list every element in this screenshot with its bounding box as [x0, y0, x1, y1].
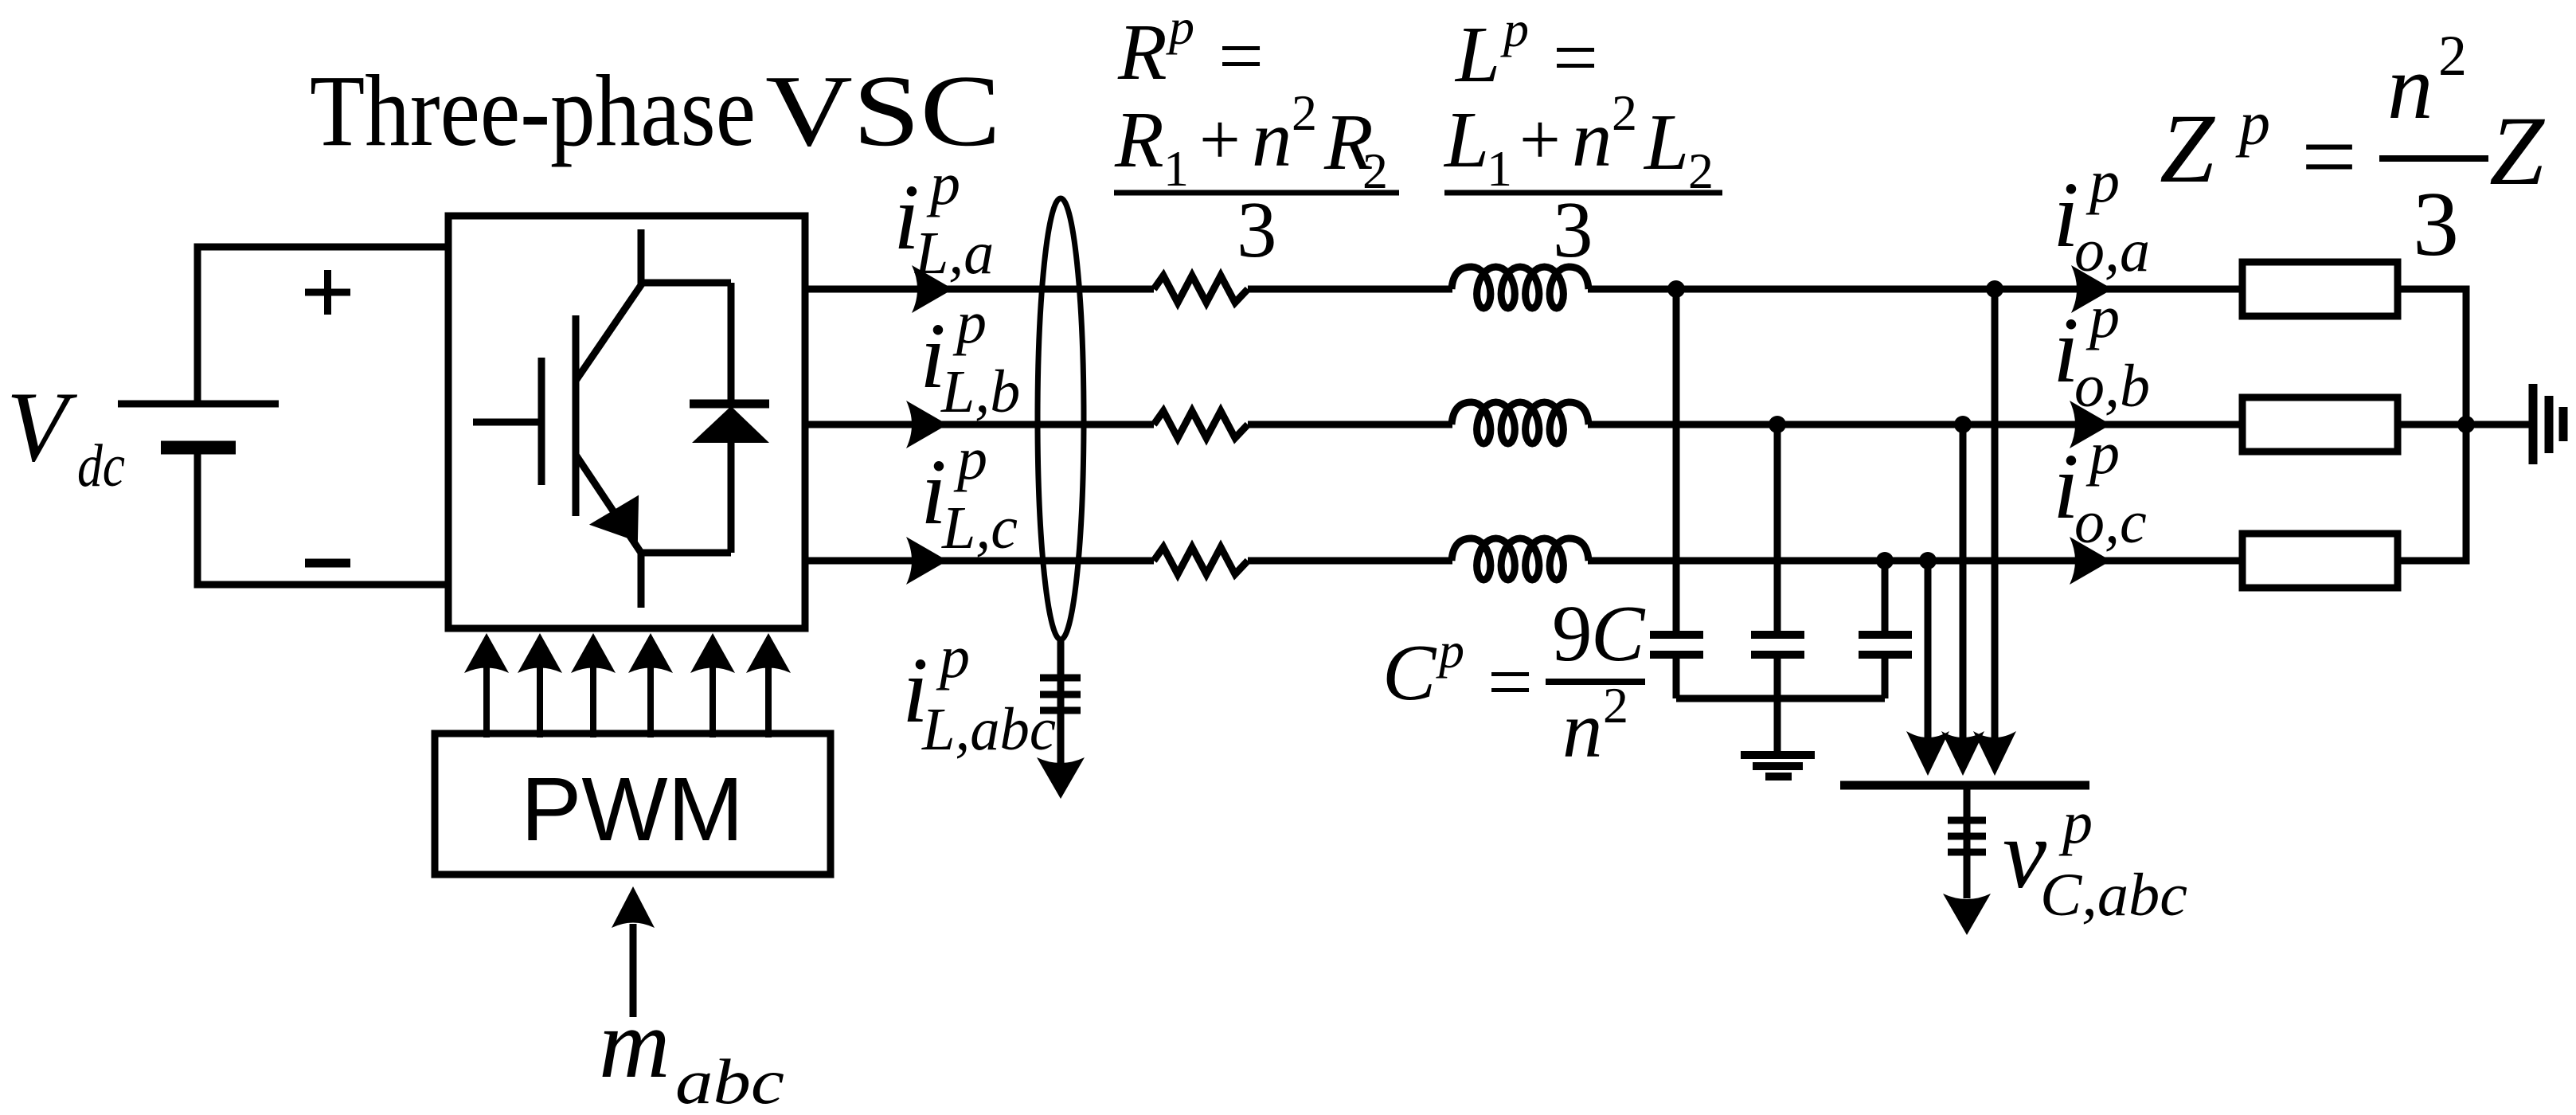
svg-text:2: 2 — [1603, 677, 1628, 734]
node dot a1 — [1667, 280, 1685, 298]
gate drive arrowheads — [464, 633, 791, 673]
capacitor C2 stem — [1774, 424, 1781, 753]
bundle arrow down — [1057, 640, 1065, 763]
svg-text:9: 9 — [1552, 589, 1593, 678]
svg-text:o,a: o,a — [2074, 217, 2150, 284]
IGBT emitter — [576, 455, 731, 608]
svg-text:L: L — [1454, 10, 1500, 99]
svg-text:C: C — [1591, 589, 1646, 678]
IGBT gate lead — [473, 419, 538, 426]
right bus — [2463, 286, 2470, 565]
i_L arrowheads — [906, 265, 953, 585]
svg-text:m: m — [599, 989, 670, 1098]
capacitor bottom bus — [1676, 695, 1885, 702]
wire b after load to ground — [2398, 421, 2530, 428]
IGBT gate bar — [538, 358, 545, 485]
svg-text:=: = — [1218, 11, 1264, 100]
wire a after load — [2398, 286, 2466, 293]
svg-text:abc: abc — [675, 1047, 784, 1111]
svg-text:C: C — [1382, 628, 1437, 717]
svg-text:o,c: o,c — [2074, 489, 2147, 556]
ground below C2 — [1741, 751, 1815, 759]
svg-text:3: 3 — [1237, 185, 1277, 274]
IGBT body bar — [573, 315, 580, 516]
phase line a — [805, 286, 2242, 293]
node dot b1 — [1769, 416, 1786, 433]
IGBT top connector to diode — [641, 280, 731, 287]
svg-text:=: = — [2301, 102, 2357, 211]
bundle ticks — [1040, 678, 1081, 710]
minus sign — [305, 559, 350, 568]
svg-text:=: = — [1553, 13, 1598, 102]
IGBT emitter arrow — [595, 499, 636, 538]
svg-text:Three-phase: Three-phase — [310, 54, 756, 167]
VSC box — [448, 216, 805, 628]
i_o arrowheads — [2070, 265, 2113, 585]
IGBT collector — [576, 229, 641, 381]
svg-text:p: p — [2085, 284, 2120, 350]
PWM box — [435, 734, 831, 874]
vC probe wire from line a — [1992, 289, 1999, 741]
battery plate long — [118, 401, 279, 408]
svg-text:R: R — [1114, 95, 1164, 184]
right ground — [2533, 384, 2563, 464]
svg-text:3: 3 — [2413, 174, 2459, 276]
svg-text:R: R — [1117, 7, 1167, 96]
svg-text:2: 2 — [1292, 84, 1317, 141]
node dot a2 — [1986, 280, 2003, 298]
svg-text:Z: Z — [2489, 96, 2545, 205]
inductor phase a — [1452, 267, 1589, 308]
svg-text:L,abc: L,abc — [921, 696, 1056, 763]
C3 plates — [1859, 631, 1912, 639]
vC probe wire from line b — [1960, 424, 1967, 741]
svg-text:Z: Z — [2160, 94, 2215, 203]
svg-text:1: 1 — [1163, 140, 1189, 197]
svg-text:C,abc: C,abc — [2040, 862, 2187, 929]
neutral node dot — [2457, 416, 2475, 433]
svg-text:=: = — [1487, 637, 1533, 726]
svg-text:V: V — [6, 372, 78, 483]
svg-text:PWM: PWM — [521, 759, 744, 859]
svg-text:p: p — [2235, 88, 2270, 158]
svg-text:p: p — [1500, 1, 1529, 57]
svg-text:p: p — [2085, 148, 2120, 215]
m_abc input arrow — [630, 924, 637, 1017]
vC arrowheads — [1906, 731, 2016, 776]
svg-text:2: 2 — [1612, 84, 1637, 141]
svg-text:p: p — [1166, 0, 1194, 55]
svg-text:L,b: L,b — [940, 358, 1020, 425]
load Z box b — [2242, 397, 2398, 452]
svg-text:+: + — [1199, 99, 1241, 180]
battery plate short — [161, 441, 236, 455]
node dot c1 — [1876, 552, 1894, 569]
svg-text:3: 3 — [1553, 185, 1593, 274]
vC probe wire from line c — [1925, 561, 1932, 741]
svg-text:p: p — [2085, 420, 2120, 487]
capacitor C1 stem — [1673, 289, 1680, 698]
vC down arrow — [1964, 785, 1971, 898]
C2 plates — [1751, 631, 1804, 639]
svg-text:+: + — [1519, 99, 1561, 180]
svg-text:VSC: VSC — [765, 54, 1001, 167]
svg-text:p: p — [1436, 622, 1464, 679]
gate drive arrows PWM to VSC — [487, 667, 768, 737]
phase line c — [805, 557, 2242, 565]
svg-text:p: p — [952, 289, 987, 356]
node dot b2 — [1954, 416, 1972, 433]
svg-text:n: n — [1562, 685, 1603, 774]
svg-text:p: p — [2058, 789, 2093, 856]
load Z box a — [2242, 262, 2398, 316]
wire c after load — [2398, 557, 2466, 565]
wire: battery top to VSC — [197, 247, 448, 404]
plus sign — [305, 270, 350, 315]
wire: battery bottom to VSC — [197, 451, 448, 585]
diode triangle — [692, 406, 769, 443]
svg-text:L: L — [1443, 95, 1489, 184]
svg-text:p: p — [953, 425, 987, 492]
svg-text:2: 2 — [2438, 24, 2467, 88]
svg-text:p: p — [936, 624, 970, 691]
diode cathode bar — [690, 400, 769, 409]
load Z box c — [2242, 534, 2398, 588]
svg-text:L,a: L,a — [914, 220, 994, 287]
bundle ellipse — [1038, 198, 1084, 640]
svg-text:n: n — [1252, 94, 1292, 183]
vC reference bar — [1840, 781, 2089, 790]
resistor phase a — [1154, 276, 1248, 303]
vC ticks — [1948, 820, 1986, 852]
svg-text:L: L — [1643, 97, 1689, 186]
svg-text:dc: dc — [77, 432, 125, 499]
svg-text:n: n — [2387, 37, 2433, 138]
resistor phase b — [1154, 411, 1248, 438]
capacitor C3 stem — [1882, 561, 1889, 698]
inductor phase b — [1452, 402, 1589, 444]
line gaps under resistors and inductors — [1154, 284, 1588, 565]
resistor phase c — [1154, 547, 1248, 574]
svg-text:1: 1 — [1487, 140, 1512, 197]
phase line b — [805, 421, 2242, 428]
inductor phase c — [1452, 538, 1589, 580]
node dot c2 — [1919, 552, 1937, 569]
svg-text:n: n — [1572, 94, 1612, 183]
svg-text:o,b: o,b — [2074, 353, 2150, 420]
diode branch — [728, 283, 735, 553]
C1 plates — [1650, 631, 1703, 639]
svg-text:L,c: L,c — [941, 495, 1018, 561]
